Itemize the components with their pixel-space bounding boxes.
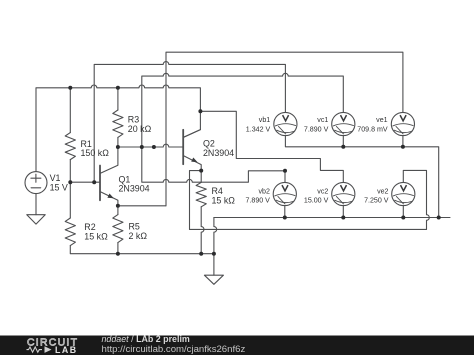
svg-text:R2: R2: [84, 222, 95, 232]
svg-text:vc2: vc2: [317, 188, 328, 196]
svg-text:R4: R4: [212, 186, 223, 196]
svg-text:ve1: ve1: [376, 116, 387, 124]
svg-text:20 kΩ: 20 kΩ: [128, 124, 152, 134]
svg-text:Q1: Q1: [119, 174, 131, 184]
svg-text:2 kΩ: 2 kΩ: [129, 231, 148, 241]
svg-text:15.00 V: 15.00 V: [304, 196, 329, 204]
svg-text:15 V: 15 V: [50, 182, 68, 192]
svg-text:V1: V1: [50, 173, 61, 183]
svg-text:R1: R1: [81, 139, 92, 149]
svg-text:ve2: ve2: [377, 188, 388, 196]
svg-text:http://circuitlab.com/cjanfks2: http://circuitlab.com/cjanfks26nf6z: [102, 344, 246, 355]
svg-text:15 kΩ: 15 kΩ: [84, 231, 108, 241]
svg-text:R3: R3: [128, 114, 139, 124]
svg-text:7.890 V: 7.890 V: [304, 125, 329, 133]
svg-text:vb2: vb2: [258, 188, 269, 196]
svg-text:LAB: LAB: [55, 345, 78, 355]
svg-text:2N3904: 2N3904: [203, 148, 234, 158]
svg-text:nddaet / LAb 2 prelim: nddaet / LAb 2 prelim: [102, 334, 190, 344]
svg-text:R5: R5: [129, 222, 140, 232]
svg-text:150 kΩ: 150 kΩ: [81, 148, 110, 158]
svg-text:15 kΩ: 15 kΩ: [212, 195, 236, 205]
svg-text:Q2: Q2: [203, 139, 215, 149]
svg-text:7.890 V: 7.890 V: [245, 196, 270, 204]
svg-text:7.250 V: 7.250 V: [364, 196, 389, 204]
svg-text:709.8 mV: 709.8 mV: [357, 125, 388, 133]
svg-text:vb1: vb1: [259, 116, 270, 124]
svg-text:1.342 V: 1.342 V: [246, 125, 271, 133]
svg-text:2N3904: 2N3904: [119, 184, 150, 194]
svg-text:vc1: vc1: [317, 116, 328, 124]
